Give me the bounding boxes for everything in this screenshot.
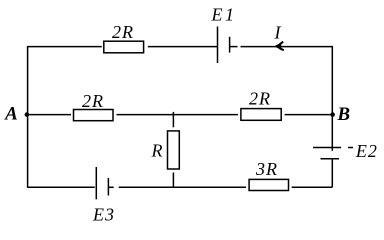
battery E2 long plate [313,147,341,149]
wire E1 right tick [230,46,238,48]
wire R branch upper [172,112,174,127]
svg-text:2R: 2R [249,89,271,109]
wire E3 right tick [108,186,113,188]
battery E3 short plate [107,178,109,196]
battery E1 long plate [217,27,219,64]
node B junction dot [330,112,335,117]
svg-text:I: I [274,22,282,42]
wire top right segment [241,46,333,48]
svg-text:R: R [151,141,164,161]
wire E2 plate overshoot [331,147,333,150]
svg-text:B: B [336,104,351,125]
wire bottom right segment [292,186,333,188]
wire left vertical A branch [27,46,29,188]
wire R branch lower [172,173,174,188]
resistor 2R middle-right box [241,109,281,121]
svg-text:A: A [4,104,19,125]
battery E3 long plate [95,167,97,199]
wire middle left segment [29,114,72,116]
battery E2 label tick [348,147,353,149]
wire middle right segment [285,114,331,116]
wire bottom left segment [28,186,95,188]
svg-text:3R: 3R [255,159,278,179]
svg-text:2R: 2R [82,91,104,111]
resistor 2R middle-left box [74,110,114,121]
svg-text:E2: E2 [355,141,378,161]
svg-text:E1: E1 [211,5,237,25]
resistor 2R top box [104,41,144,53]
wire top middle segment [148,46,217,48]
battery E2 short plate [321,158,340,160]
wire right vertical upper [331,46,333,147]
battery E1 short plate [229,37,231,53]
node A junction dot [25,112,30,117]
wire right vertical lower [331,159,333,188]
svg-text:2R: 2R [112,22,134,42]
wire middle center segment [117,114,238,116]
current I arrowhead [275,42,284,51]
resistor 3R box [249,179,288,190]
wire bottom middle segment [119,186,246,188]
svg-text:E3: E3 [92,204,115,224]
wire top left segment [28,46,102,48]
resistor R vertical box [168,131,180,169]
